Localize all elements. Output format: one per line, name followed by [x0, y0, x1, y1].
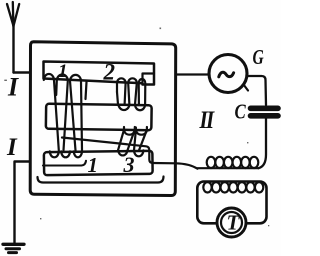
svg-text:II: II — [199, 105, 215, 133]
svg-text:I: I — [7, 73, 19, 102]
svg-text:G: G — [253, 46, 265, 69]
svg-text:1: 1 — [88, 153, 99, 177]
svg-text:T: T — [227, 211, 241, 235]
svg-text:2: 2 — [103, 60, 116, 85]
svg-text:C: C — [235, 101, 246, 124]
svg-text:3: 3 — [123, 152, 135, 177]
svg-text:1: 1 — [58, 61, 68, 82]
svg-text:I: I — [6, 134, 18, 161]
